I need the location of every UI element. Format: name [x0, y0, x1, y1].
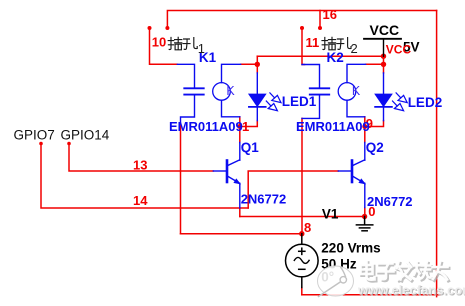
- svg-text:GPIO7: GPIO7: [14, 128, 55, 143]
- wire LED2 riser: [383, 56, 385, 73]
- svg-text:11: 11: [306, 35, 320, 50]
- wire V1 bottom stub: [301, 288, 303, 295]
- svg-text:1: 1: [242, 119, 249, 134]
- svg-text:GPIO14: GPIO14: [61, 128, 110, 143]
- wire node 8 horizontal to V1: [181, 233, 302, 235]
- relay K2 contact top pin: [347, 64, 366, 82]
- wire K1 contact bottom to Q1 collector node 1: [239, 117, 241, 143]
- wire K2 coil bottom drop to V1: [301, 118, 303, 233]
- svg-text:LED1: LED1: [282, 94, 317, 109]
- wire top rail net 16: [167, 11, 436, 29]
- relay K1 coil bottom pin: [181, 96, 195, 124]
- node dot GPIO7: [39, 142, 43, 146]
- voltage source V1 AC: [286, 234, 319, 288]
- wire socket2 pin stub node 16: [319, 11, 321, 29]
- wire socket2 pin stub node 11: [302, 28, 305, 65]
- wire LED1 cathode jog: [240, 121, 257, 127]
- wire ground run node 0: [240, 216, 365, 218]
- relay K1 coil top pin: [177, 64, 194, 87]
- LED D1 LED1: [249, 73, 281, 121]
- svg-text:8: 8: [304, 220, 311, 235]
- svg-text:Q2: Q2: [366, 140, 384, 155]
- svg-text:V1: V1: [322, 207, 339, 222]
- svg-text:1: 1: [198, 41, 205, 56]
- relay K2 coil top pin: [302, 65, 320, 88]
- junction dot LED2 cathode: [362, 124, 367, 129]
- svg-text:EMR011A09: EMR011A09: [169, 119, 243, 134]
- junction dot LED1 cathode: [237, 124, 242, 129]
- wire LED2 cathode jog: [365, 121, 384, 127]
- svg-text:VCC: VCC: [386, 43, 412, 57]
- wire K1 coil bottom drop node 8: [180, 124, 182, 234]
- relay K2 contact circle: [338, 83, 356, 101]
- wire long horizontal to VCC: [257, 55, 383, 57]
- wire socket1 pin stub node 10: [150, 28, 178, 64]
- junction dot node 1 top: [255, 62, 260, 67]
- wire GPIO7 node 14: [41, 144, 248, 209]
- wire GPIO14 to Q1 base node 13: [69, 144, 213, 172]
- svg-text:LED2: LED2: [408, 95, 443, 110]
- relay K1 contact bottom pin: [222, 100, 240, 117]
- wire K2 contact bottom to Q2 collector node 9: [364, 117, 366, 143]
- svg-text:14: 14: [133, 193, 148, 208]
- wire LED1 riser: [256, 56, 258, 73]
- LED D2 LED2: [375, 73, 407, 121]
- ground node 0: [356, 217, 372, 231]
- svg-text:Q1: Q1: [241, 140, 260, 155]
- junction dot K2 contact top: [381, 62, 386, 67]
- svg-text:EMR011A09: EMR011A09: [296, 119, 370, 134]
- svg-text:K: K: [226, 84, 235, 98]
- junction dot node 0 ground: [362, 214, 367, 219]
- wire right rail: [436, 11, 438, 297]
- svg-text:K2: K2: [327, 50, 344, 65]
- label socket2 chinese 插孔2: [322, 37, 336, 50]
- svg-text:2N6772: 2N6772: [367, 194, 413, 209]
- node dot socket2 pin16b: [318, 26, 322, 30]
- svg-text:2N6772: 2N6772: [241, 192, 287, 207]
- wire Q1 emitter drop: [239, 208, 241, 217]
- wire K2 contact to LED2: [366, 63, 384, 65]
- watermark logo circle: [318, 266, 354, 297]
- wire K1 contact to LED1 node 1 top: [241, 63, 258, 65]
- transistor Q2 NPN: [338, 143, 365, 208]
- svg-text:2: 2: [351, 41, 358, 56]
- node dot socket1 pin10: [148, 26, 152, 30]
- relay K1 coil plates: [184, 87, 203, 89]
- node dot socket2 pin11: [300, 26, 304, 30]
- node dot GPIO14: [67, 142, 71, 146]
- svg-text:10: 10: [152, 35, 166, 50]
- relay K1 contact circle: [213, 83, 231, 101]
- wire Q2 base link: [248, 171, 338, 208]
- wire Q2 emitter drop: [364, 208, 366, 217]
- svg-text:13: 13: [133, 157, 147, 172]
- svg-text:VCC: VCC: [370, 22, 400, 38]
- junction dot VCC: [381, 54, 386, 59]
- svg-text:www.elecfans.com: www.elecfans.com: [357, 283, 465, 298]
- wire bottom rail: [302, 294, 440, 296]
- junction dot node 8 at V1: [299, 231, 304, 236]
- transistor Q1 NPN: [213, 143, 240, 209]
- label socket1 chinese 插孔1: [168, 37, 182, 50]
- power VCC symbol: [364, 39, 401, 56]
- svg-text:K: K: [352, 84, 361, 98]
- relay K2 coil plates: [310, 87, 329, 89]
- node dot socket1 pin16a: [165, 26, 169, 30]
- svg-text:220 Vrms: 220 Vrms: [321, 241, 380, 256]
- relay K2 contact bottom pin: [347, 100, 365, 117]
- relay K1 contact top pin: [222, 64, 241, 82]
- relay K2 coil bottom pin: [302, 96, 320, 119]
- svg-text:16: 16: [323, 7, 337, 22]
